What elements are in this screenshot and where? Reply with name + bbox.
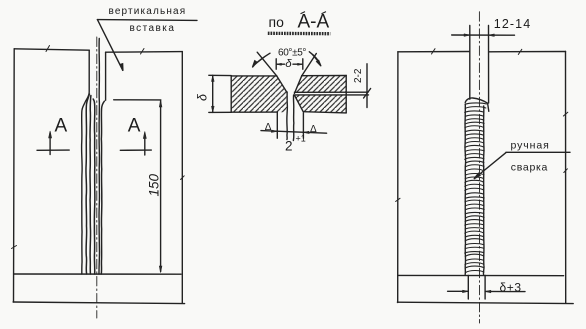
svg-text:Δ: Δ [310,124,317,135]
right bevel extension line [302,54,317,76]
root dim arrowheads [271,130,309,134]
svg-text:вертикальная: вертикальная [109,6,187,17]
run-off band bottom edge [397,302,573,303]
left plate bottom edge [231,111,277,113]
plate thickness ext line top [209,74,231,76]
leader line from note to insert [97,20,123,71]
groove edge left [469,26,471,100]
delta dim arrowheads [276,63,302,65]
break tick on left plate top edge [46,46,50,52]
12-14 arrowheads [464,34,494,37]
root ext line left [276,113,278,139]
plate top edge left part [398,51,469,53]
note underline [506,151,570,153]
angle arc stroke left with arrowhead [253,53,270,67]
right plate top edge [106,51,183,54]
svg-text:δ: δ [285,58,292,70]
right upper plate hatched body [294,76,346,93]
run-off band bottom edge [13,302,185,304]
weld seam line 6 [101,101,104,274]
svg-text:по: по [269,14,285,30]
svg-text:А: А [55,116,68,137]
right lower plate hatched body [294,95,346,113]
note underline [97,19,197,22]
plate left edge [397,52,399,303]
svg-text:δ+3: δ+3 [500,281,522,295]
right plate top edge [302,75,346,77]
svg-text:вставка: вставка [130,23,176,34]
svg-text:δ: δ [196,93,210,101]
svg-text:сварка: сварка [511,162,548,174]
section marker right: arrowhead [143,132,146,139]
lap joint upper line [294,91,368,93]
angle arc stroke right with arrowhead [309,52,321,66]
break tick on right plate right edge [181,176,185,180]
section marker right: arrow stem [144,134,146,156]
left bevel face [277,76,287,93]
run-off band top edge [398,274,564,276]
left bevel extension line [257,52,277,76]
thickness dim arrowheads [211,76,214,113]
plate thickness ext line bottom [209,111,231,113]
plate right edge [565,52,567,304]
right lower bevel face [295,96,304,112]
section marker right: horizontal stroke [120,149,151,151]
break tick top edge 1 [432,49,436,54]
svg-text:150: 150 [147,173,162,196]
delta width dim: left end bar [275,59,277,69]
2-2 oblique tick [364,89,371,99]
right root gap face [292,95,294,141]
delta width dim: right end bar [302,59,304,69]
break tick on right plate top edge [141,49,145,55]
break tick left edge [396,198,400,201]
break tick right edge 2 [564,169,568,173]
dim line delta+3 left part [448,290,469,292]
delta width dim line [276,63,303,65]
arrowhead bottom of 150 dim [159,266,162,273]
arrowhead top of 150 dim [159,100,162,107]
leader line ручная сварка [474,153,506,179]
groove centerline dash-dot [478,12,480,323]
left plate top edge [231,75,277,77]
title underline (hatched) [268,32,331,36]
svg-text:+1: +1 [296,134,306,144]
weld bead right edge [482,106,485,275]
delta+3 arrowheads [463,290,491,293]
dimension line 150 [160,101,162,272]
centerline of insert (dash-dot) [96,37,98,318]
left plate right edge curving into weld seam [82,50,90,274]
weld seam line 2 [86,94,89,274]
break tick right edge [563,112,567,116]
weld seam line 4 [93,99,95,274]
break tick top edge 2 [518,49,522,54]
svg-text:А: А [128,116,141,137]
svg-text:ручная: ручная [511,139,550,151]
svg-text:Δ: Δ [265,122,272,133]
left root gap face [286,92,289,140]
left plate hatched body [231,76,287,112]
left plate left edge [230,76,232,112]
section marker left: horizontal stroke [37,149,69,151]
root dim line [261,131,327,134]
weld bead top cap [465,98,489,111]
lap joint lower line [294,94,368,96]
root ext line right [302,113,304,138]
break tick on left edge [12,246,17,249]
bead ext line right [484,276,486,300]
right plate right edge [181,52,183,303]
right upper bevel face [294,76,301,94]
svg-text:2-2: 2-2 [353,68,364,83]
bead ext line left [467,276,469,300]
right plate right edge [345,76,347,113]
weld bead left edge [464,104,467,275]
dim line delta+3 right part [485,290,525,292]
svg-text:А-А: А-А [298,12,330,33]
svg-text:2: 2 [285,139,293,154]
section marker left: arrowhead [49,131,52,138]
right plate bottom edge [303,112,346,113]
vertical insert edge line [98,39,100,275]
section marker left: arrow stem [49,133,51,155]
weld bead ripples [465,103,487,273]
dim line 12-14 [452,34,515,36]
plate thickness dim line [212,75,214,112]
svg-text:60°±5°: 60°±5° [278,48,306,59]
groove edge right [488,26,490,104]
run-off band top edge [14,273,181,275]
plate top edge right part [489,51,566,53]
weld seam line 3 [89,96,92,275]
2-2 dim line vertical [366,64,368,108]
left plate top edge [14,49,89,50]
right plate left edge [105,52,107,100]
A-A letter top flags [301,12,327,14]
insert bottom reference line [114,99,161,101]
svg-text:12-14: 12-14 [494,17,531,31]
left plate left edge [13,49,16,302]
